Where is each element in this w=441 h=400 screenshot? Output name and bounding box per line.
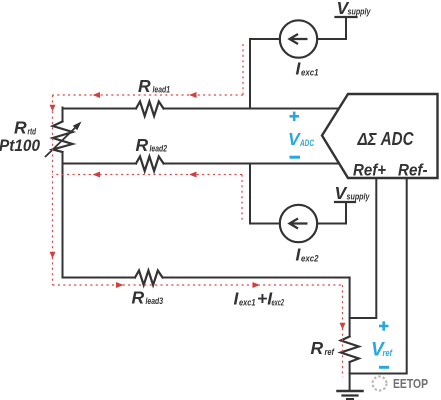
wire left vertical upper [62,108,64,122]
red arrow left on top path 1 [93,92,101,98]
svg-text:Ref-: Ref- [398,161,428,180]
svg-text:R: R [311,338,324,358]
red arrow left on second path 2 [189,172,197,178]
wire Ref- pin [350,178,407,374]
svg-text:supply: supply [347,192,371,202]
red arrow down on left path [50,252,56,259]
wire second lead right segment [164,163,340,165]
svg-text:R: R [138,76,151,96]
wire Iexc1 to Vsupply [317,17,346,39]
svg-text:Ref+: Ref+ [353,161,386,180]
red arrow left on second path 1 [93,172,101,178]
resistor Rlead2 [136,157,164,172]
label Vadc minus [290,156,301,159]
svg-text:ΔΣ ADC: ΔΣ ADC [357,129,415,149]
Rrtd variable arrow [45,122,82,158]
svg-text:exc1: exc1 [239,297,256,307]
EETOP watermark [373,377,429,392]
svg-text:rtd: rtd [28,126,37,136]
red arrow right on bottom path 2 [253,282,261,288]
svg-text:EETOP: EETOP [393,377,428,391]
svg-text:ref: ref [383,348,393,358]
red dashed path bottom horizontal [53,284,343,286]
red arrow left on top path 2 [189,92,197,98]
wire Iexc1 drop to top lead [250,39,280,109]
svg-text:ADC: ADC [299,138,314,148]
svg-text:exc2: exc2 [301,253,319,263]
red arrow down on Rref path [340,323,346,330]
red dashed current path Iexc1 vertical near source [53,44,343,377]
svg-text:R: R [136,135,149,155]
svg-text:lead3: lead3 [146,296,164,306]
op-amp/ADC body pentagon [322,94,438,178]
wire Rref top [349,278,351,337]
wire Ref+ pin [350,178,377,318]
resistor Rrtd (variable RTD element) [53,122,73,153]
wire top lead right segment [164,108,340,110]
red dashed path top horizontal [53,94,244,96]
red dashed path left vertical [52,95,54,285]
wire top lead left segment [63,108,137,110]
red arrow right on bottom path 1 [116,282,124,288]
svg-text:lead1: lead1 [153,85,171,95]
current source Iexc1 circle [280,20,317,57]
label Vref minus [379,366,389,369]
svg-text:exc1: exc1 [301,67,319,77]
arrow inside Iexc2 [290,219,308,229]
svg-text:R: R [132,288,145,308]
red dashed path Rref vertical [342,285,344,377]
red dashed path Iexc2 vertical [241,175,243,221]
ground [338,390,363,393]
red arrow down at RTD top [50,105,56,112]
svg-text:supply: supply [348,7,372,17]
svg-text:Pt100: Pt100 [0,137,41,155]
Vsupply top terminal bar [336,16,357,18]
svg-text:R: R [14,118,27,138]
current source Iexc2 circle [280,205,317,242]
wire Rref bottom to ground [349,362,351,391]
label Iexc1+Iexc2 [234,289,285,309]
red dashed path Iexc2 horizontal [53,174,243,176]
svg-text:ref: ref [325,347,335,357]
arrow inside Iexc1 [290,34,308,44]
wire left vertical lower [62,152,64,278]
wire bottom lead left segment [63,277,136,279]
label Vadc plus [290,112,300,121]
wire second lead left segment [63,163,137,165]
Vsupply mid terminal bar [335,201,355,203]
resistor Rlead1 [136,102,164,117]
svg-text:lead2: lead2 [150,144,168,154]
svg-text:exc2: exc2 [272,297,285,307]
wire Iexc2 drop to second lead [250,164,280,224]
label Vref plus [379,321,389,330]
wire bottom lead right segment [163,277,350,279]
wire Iexc2 to Vsupply2 [317,202,346,224]
resistor Rref [341,337,359,363]
resistor Rlead3 [135,271,163,286]
